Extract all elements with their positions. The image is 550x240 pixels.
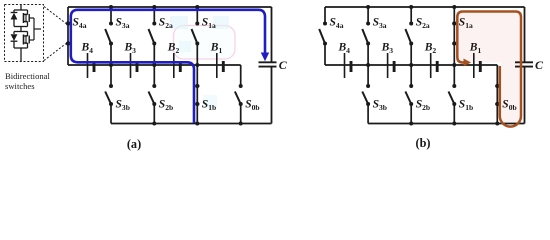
switch S2a (panel a) (open) with branch wire xyxy=(149,7,157,65)
wire right edge top (panel a) xyxy=(271,7,273,62)
battery B3 (panel a) xyxy=(131,53,138,78)
node top split xyxy=(14,9,28,11)
wire right edge bottom (panel a) xyxy=(271,67,273,124)
wire bottom rail (panel a) xyxy=(111,123,272,125)
body diode D1 (top MOSFET) xyxy=(11,10,18,27)
switch S4a (panel b) (open) with branch wire xyxy=(319,7,327,65)
switch S0b (panel b) (closed) with branch wire xyxy=(495,65,499,124)
junction node n3 top rail (a) xyxy=(109,5,113,9)
capacitor C (panel b) xyxy=(515,62,533,66)
arrowhead of blue path (into capacitor C) xyxy=(261,53,269,62)
faint cyan artifact patch near S1a label xyxy=(213,16,229,29)
junction node n1 top rail (a) xyxy=(195,5,199,9)
body diode D2 (bottom MOSFET) xyxy=(11,32,18,49)
highlighted current path (red, panel b: S1a branch into B1) xyxy=(457,12,521,127)
junction node n3 top rail (b) xyxy=(366,5,370,9)
battery B2 (panel b) xyxy=(431,53,438,78)
switch S2b (panel a) (open) with branch wire xyxy=(149,65,157,124)
switch S1b (panel b) (open) with branch wire xyxy=(449,65,457,124)
wire bottom join xyxy=(14,47,28,49)
junction node S1b bottom rail (a) xyxy=(195,122,199,126)
wire middle rail / battery string (panel a) xyxy=(68,64,241,66)
faint cyan artifact patch near S1b label xyxy=(203,95,217,108)
wire top lead of bidirectional switch xyxy=(20,5,22,11)
wire mid join (common node of M1/M2) xyxy=(14,27,28,32)
light pink fill inside red loop (panel b, right column) xyxy=(501,63,520,125)
junction node n3 middle rail (a) xyxy=(109,63,113,67)
junction node S1b bottom rail (b) xyxy=(452,122,456,126)
battery B4 (panel b) xyxy=(345,53,352,78)
svg-text:C: C xyxy=(535,58,544,72)
switch S2a (panel b) (open) with branch wire xyxy=(405,7,413,65)
light pink fill inside red loop (panel b, upper block) xyxy=(459,13,520,63)
wire gate link xyxy=(34,18,41,40)
junction node n3 middle rail (b) xyxy=(366,63,370,67)
junction node n1 middle rail (a) xyxy=(195,63,199,67)
wire top rail (panel b) xyxy=(325,6,525,8)
switch S2b (panel b) (open) with branch wire xyxy=(405,65,413,124)
wire middle rail / battery string (panel b) xyxy=(325,64,497,66)
switch S1a (panel a) (open) with branch wire xyxy=(192,7,200,65)
junction node n2 top rail (b) xyxy=(409,5,413,9)
transistor M1 (top MOSFET) xyxy=(24,10,35,27)
svg-text:(a): (a) xyxy=(127,137,141,151)
wire right edge top (panel b) xyxy=(524,7,526,62)
callout dashed box (bidirectional switch detail) xyxy=(5,5,44,62)
faint cyan artifact patch near S2a label xyxy=(170,16,188,29)
battery B1 (panel b) xyxy=(474,53,481,78)
switch S1b (panel a) (closed) with branch wire xyxy=(195,65,199,124)
junction node n1 top rail (b) xyxy=(452,5,456,9)
battery B1 (panel a) xyxy=(217,53,224,78)
wire bottom lead of bidirectional switch xyxy=(20,48,22,62)
highlighted current path (blue, panel a) xyxy=(71,10,265,123)
switch S3b (panel a) (open) with branch wire xyxy=(105,65,113,124)
battery B4 (panel a) xyxy=(88,53,95,78)
junction node n1 middle rail (b) xyxy=(452,63,456,67)
junction node n2 top rail (a) xyxy=(152,5,156,9)
faint pink ghost outline (panel a, around S1a/B1) xyxy=(174,26,236,60)
callout leader line (top) to S4a terminal xyxy=(44,7,66,24)
svg-text:(b): (b) xyxy=(415,136,430,150)
wire bottom rail (panel b) xyxy=(368,123,524,125)
junction node n2 middle rail (b) xyxy=(409,63,413,67)
svg-text:C: C xyxy=(279,58,288,72)
capacitor C (panel a) xyxy=(259,62,277,66)
faint cyan artifact patch near B2 label xyxy=(179,41,191,52)
wire top rail (panel a) xyxy=(68,6,272,8)
switch S1a (panel b) (closed) with branch wire xyxy=(452,7,456,65)
switch S3b (panel b) (open) with branch wire xyxy=(362,65,370,124)
junction node S0b bottom rail (b) xyxy=(495,122,499,126)
switch S4a (panel a) (closed) with branch wire xyxy=(66,7,70,65)
junction node S2b bottom rail (b) xyxy=(409,122,413,126)
battery B2 (panel a) xyxy=(174,53,181,78)
battery B3 (panel b) xyxy=(388,53,395,78)
callout leader line (bottom) to S4a terminal xyxy=(44,44,66,61)
switch S3a (panel b) (open) with branch wire xyxy=(362,7,370,65)
transistor M2 (bottom MOSFET) xyxy=(24,32,35,49)
junction node n2 middle rail (a) xyxy=(152,63,156,67)
junction node S0b bottom rail (a) xyxy=(239,122,243,126)
junction node S2b bottom rail (a) xyxy=(152,122,156,126)
switch S0b (panel a) (open) with branch wire xyxy=(235,65,243,124)
arrowhead of red path (into battery B1) xyxy=(464,59,472,67)
wire right edge bottom (panel b) xyxy=(524,67,526,124)
switch S3a (panel a) (open) with branch wire xyxy=(105,7,113,65)
